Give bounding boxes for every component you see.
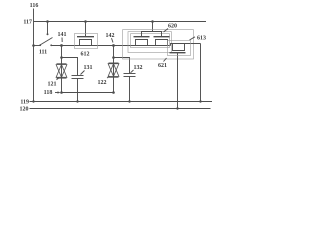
svg-text:119: 119	[20, 100, 29, 106]
wire 613 gate lead down	[177, 53, 179, 109]
wire capacitor 132 lower lead	[129, 77, 131, 102]
svg-text:121: 121	[48, 82, 57, 88]
junction dot bus/620-gate	[151, 20, 154, 23]
junction dot 118 left	[60, 91, 63, 94]
box around 612	[75, 34, 98, 49]
node 141 dot	[60, 44, 63, 47]
leader 141	[61, 38, 63, 43]
junction dot 613drain/119	[199, 100, 201, 102]
box 621 middle	[128, 32, 172, 53]
svg-text:118: 118	[44, 90, 53, 96]
wire capacitor 131 lower lead	[77, 79, 79, 102]
switch 111 left terminal	[39, 44, 41, 46]
junction dot 116/119	[32, 100, 34, 102]
wire 620 gate drop	[152, 22, 154, 32]
junction dot bus/switch-drop	[46, 20, 49, 23]
junction dot 142 branch	[112, 56, 115, 59]
node 142 dot	[112, 44, 115, 47]
wire switch drop	[47, 22, 49, 34]
wire 612 gate lead	[85, 22, 87, 37]
transistor pair right channel	[156, 40, 168, 46]
switch 111 blade	[40, 38, 53, 46]
bus 117	[34, 21, 207, 23]
svg-text:122: 122	[98, 80, 107, 86]
junction dot 116/main wire	[32, 44, 35, 47]
wire branch to capacitor 131	[62, 58, 78, 76]
junction dot 132/119	[128, 100, 130, 102]
transistor 612 gate bar	[77, 36, 94, 38]
svg-text:142: 142	[106, 33, 115, 39]
transistor 613 channel	[173, 44, 185, 51]
capacitor 132	[124, 73, 136, 75]
junction dot 613gate/120	[176, 107, 178, 109]
junction dot bus/612-gate	[84, 20, 87, 23]
wire main horizontal right of switch	[51, 45, 170, 47]
box 610 outer	[123, 30, 194, 59]
transistor pair left gate bar	[134, 36, 150, 38]
wire step between 620 and 613	[171, 44, 201, 46]
svg-text:612: 612	[81, 52, 90, 58]
diode group 121	[57, 63, 67, 65]
svg-text:111: 111	[39, 50, 47, 56]
svg-text:131: 131	[84, 65, 93, 71]
leader 131	[81, 71, 85, 75]
leader 620	[164, 29, 169, 33]
svg-text:621: 621	[158, 63, 167, 69]
leader 142	[112, 38, 114, 42]
transistor 613 gate bar	[170, 52, 186, 54]
transistor 612 channel	[80, 40, 92, 46]
wire node 142 down	[113, 46, 115, 93]
line 120	[30, 108, 211, 110]
leader 132	[131, 70, 134, 73]
svg-text:132: 132	[134, 65, 143, 71]
wire main horizontal left segment	[34, 45, 41, 47]
wire branch to capacitor 132	[114, 58, 130, 74]
svg-text:120: 120	[20, 107, 29, 113]
transistor pair right gate bar	[154, 36, 170, 38]
wire line 116 vertical	[33, 9, 35, 102]
line 119	[30, 101, 213, 103]
junction dot 141 branch	[60, 56, 63, 59]
junction dot 118 right	[112, 91, 115, 94]
leader 613	[190, 37, 196, 40]
line 118	[62, 92, 114, 94]
leader 621	[164, 58, 167, 62]
junction dot 131/119	[76, 100, 78, 102]
terminal dot switch upper contact	[47, 33, 49, 35]
box 620	[131, 34, 170, 48]
leader 122	[107, 76, 110, 78]
leader arrow 118	[55, 92, 59, 94]
box 613	[168, 41, 191, 56]
svg-text:620: 620	[168, 24, 177, 30]
leader 121	[57, 78, 60, 80]
wire node 141 down	[61, 46, 63, 93]
diode group 122	[109, 62, 119, 64]
svg-text:117: 117	[23, 20, 32, 26]
wire 613 drain down	[200, 44, 202, 102]
svg-text:141: 141	[58, 32, 67, 38]
svg-text:116: 116	[30, 3, 39, 9]
switch 111 right terminal	[50, 44, 52, 46]
transistor pair left channel	[136, 40, 148, 46]
svg-text:613: 613	[197, 36, 206, 42]
capacitor 131	[72, 75, 84, 77]
wire gate tie 620	[142, 32, 162, 37]
